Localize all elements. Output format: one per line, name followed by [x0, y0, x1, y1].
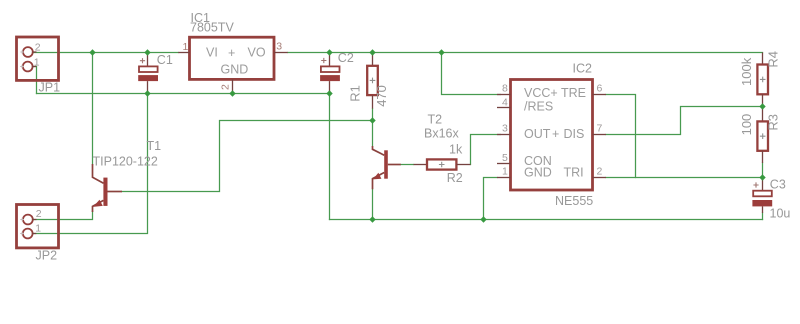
svg-text:7: 7: [597, 123, 603, 135]
svg-text:GND: GND: [524, 165, 552, 179]
connector JP1: [17, 37, 61, 95]
wire IC2 pin1 gnd drop: [484, 178, 498, 220]
base bar: [103, 178, 107, 206]
pin 3 stub: [497, 134, 511, 136]
svg-text:100: 100: [739, 114, 754, 136]
svg-text:6: 6: [597, 82, 603, 94]
svg-text:VCC+: VCC+: [524, 86, 558, 100]
junction R3/C3/pin2: [759, 174, 765, 180]
IC2 NE555: [497, 62, 606, 209]
svg-text:1: 1: [183, 41, 189, 53]
junction C2 top: [326, 49, 332, 55]
svg-text:TRI: TRI: [564, 165, 584, 179]
wire top rail left (JP1 pin2 to IC1 VI): [33, 52, 179, 54]
svg-text:JP1: JP1: [39, 81, 61, 95]
svg-text:1: 1: [34, 56, 40, 68]
svg-text:R4: R4: [765, 51, 780, 68]
capacitor C2: [320, 51, 354, 94]
junction C1 bottom: [144, 90, 150, 96]
capacitor C1: [138, 53, 173, 94]
wire R1 bottom link: [372, 109, 374, 146]
wire IC2 pin6 run: [606, 95, 636, 178]
pin 1 stub: [497, 177, 511, 179]
wire IC2 pin8 branch: [442, 53, 501, 95]
resistor R2: [414, 142, 471, 184]
collector: [373, 146, 385, 155]
wire IC2 pin2 run: [606, 177, 763, 179]
svg-text:+: +: [552, 127, 559, 141]
connector JP2: [17, 205, 59, 263]
resistor R3: [739, 107, 781, 164]
svg-text:R2: R2: [447, 171, 463, 185]
wire JP1 pin1 drop: [33, 67, 37, 94]
wire JP2 pin1 to C1 junction riser: [33, 94, 148, 234]
wire R3 bottom link: [762, 163, 764, 178]
pin 4 stub: [497, 107, 511, 109]
svg-text:Bx16x: Bx16x: [424, 126, 459, 140]
junction R1 top: [369, 49, 375, 55]
svg-text:3: 3: [502, 123, 508, 135]
wire C3 bottom link: [762, 213, 764, 220]
wire T1 collector riser: [92, 53, 94, 165]
svg-text:TIP120-122: TIP120-122: [93, 154, 158, 168]
emitter arrow: [373, 173, 382, 180]
resistor R4: [739, 51, 780, 107]
svg-text:OUT: OUT: [524, 127, 551, 141]
wire T2 base link: [401, 164, 414, 166]
wire T1 base run: [122, 121, 373, 192]
emitter: [93, 200, 104, 212]
pin 5 stub: [497, 163, 511, 165]
junction T2 emitter: [369, 216, 375, 222]
svg-text:2: 2: [220, 84, 232, 90]
svg-text:2: 2: [36, 208, 42, 220]
wire T2 emitter drop: [372, 189, 374, 219]
wire bottom rail: [330, 219, 763, 221]
pin 2 stub: [593, 177, 607, 179]
svg-text:IC2: IC2: [573, 62, 593, 76]
svg-text:GND: GND: [221, 63, 249, 77]
svg-text:DIS: DIS: [564, 127, 585, 141]
svg-text:2: 2: [35, 42, 41, 54]
svg-text:5: 5: [502, 152, 508, 164]
svg-text:NE555: NE555: [555, 194, 593, 208]
capacitor C3: [752, 177, 790, 220]
svg-text:1: 1: [35, 222, 41, 234]
transistor T1 TIP120-122: [93, 139, 162, 212]
svg-text:+: +: [228, 46, 235, 60]
svg-text:T2: T2: [428, 112, 443, 126]
emitter arrow: [93, 200, 103, 207]
svg-text:VO: VO: [248, 46, 266, 60]
svg-text:470: 470: [374, 85, 389, 107]
wire C2 drop: [329, 94, 331, 220]
svg-text:JP2: JP2: [36, 249, 58, 263]
junction IC2 pin8 branch: [438, 49, 444, 55]
svg-text:R3: R3: [766, 114, 781, 131]
svg-text:2: 2: [597, 166, 603, 178]
svg-text:C3: C3: [770, 177, 786, 191]
wire IC2 pin7 run: [606, 107, 763, 135]
junction C2 bottom: [326, 90, 332, 96]
junction R1 bottom / T1 base: [369, 117, 375, 123]
svg-text:T1: T1: [147, 139, 162, 153]
junction JP1 pin2 / T1 collector: [89, 49, 95, 55]
pin 8 stub: [497, 94, 511, 96]
svg-text:100k: 100k: [739, 57, 754, 86]
collector: [93, 164, 104, 183]
wire top rail right (IC1 VO to R4 corner): [288, 52, 763, 54]
svg-text:C2: C2: [338, 51, 354, 65]
emitter: [373, 173, 385, 190]
svg-text:/RES: /RES: [524, 99, 553, 113]
base lead: [388, 164, 401, 166]
wire R2 to IC2 pin3: [471, 135, 501, 165]
svg-text:10u: 10u: [770, 207, 791, 221]
base lead: [108, 191, 123, 193]
svg-text:1: 1: [502, 165, 508, 177]
pin 7 stub: [593, 134, 607, 136]
junction IC2 gnd: [480, 216, 486, 222]
svg-text:4: 4: [502, 96, 508, 108]
base bar: [384, 150, 388, 178]
wire gnd row left: [37, 93, 330, 95]
pin 3 stub: [274, 52, 288, 54]
transistor T2 Bx16x: [373, 112, 460, 189]
svg-text:C1: C1: [157, 53, 173, 67]
svg-text:8: 8: [502, 82, 508, 94]
wire JP2 pin2 to T1 emitter: [33, 212, 93, 220]
resistor R1: [348, 53, 390, 109]
svg-text:3: 3: [276, 41, 282, 53]
junction C1 top: [144, 49, 150, 55]
svg-text:R1: R1: [348, 85, 363, 102]
svg-text:7805TV: 7805TV: [190, 21, 234, 35]
svg-text:TRE: TRE: [561, 86, 586, 100]
junction R4/R3: [759, 103, 765, 109]
svg-text:1k: 1k: [449, 142, 463, 156]
junction IC1 gnd: [229, 90, 235, 96]
pin 6 stub: [593, 94, 607, 96]
svg-text:VI: VI: [206, 46, 218, 60]
IC1 7805 regulator: [178, 11, 287, 94]
pin 2 (GND) stub: [232, 79, 234, 93]
pin 1 stub: [178, 52, 189, 54]
